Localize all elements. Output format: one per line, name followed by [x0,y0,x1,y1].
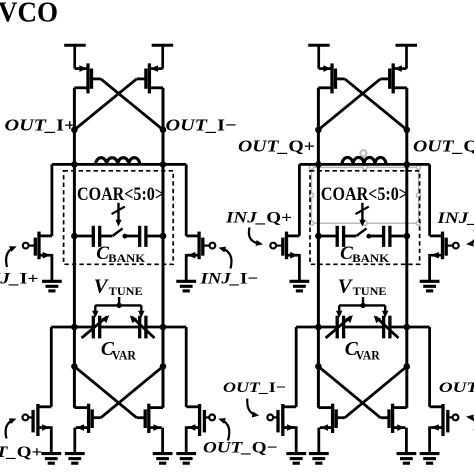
varactor CV2 (capacitor with arrow), block Q [374,315,399,338]
svg-text:OUT_I+: OUT_I+ [5,115,76,134]
node right output, block I [160,127,167,134]
svg-text:OUT_I+: OUT_I+ [439,380,474,396]
svg-text:INJ_Q−: INJ_Q− [436,210,474,227]
wire cross-coupling M1 gate to right output node, block I [101,79,163,130]
ground below right injection device, block Q [420,281,440,291]
capacitor C1 of bank, block Q [337,226,343,247]
wire cross-coupling M2 gate to left output node, block Q [318,79,380,130]
curved arrow INJ_Q- to bubble [466,230,474,247]
svg-text:BANK: BANK [108,253,145,265]
capacitor C1 of bank, block I [93,226,99,247]
node right output, block Q [404,127,411,134]
svg-text:BANK: BANK [352,253,389,265]
svg-text:TUNE: TUNE [353,284,387,298]
svg-text:VAR: VAR [356,349,381,363]
svg-text:OUT_I−: OUT_I− [166,115,237,134]
NMOS M3 (bottom-left cross-coupled, block Q) [318,404,344,454]
ground below M4, block Q [397,454,417,464]
V_TUNE feed tee with arrows, block Q [336,297,389,318]
curved arrow INJ_I- to bubble [218,247,231,269]
node tank-row right, block I [160,161,167,168]
wire cap to switch, block I [100,235,113,238]
label INJ_Q+ input [225,210,292,227]
wire cap row right, block Q [390,235,407,238]
node cap-row right, block Q [404,233,411,240]
ground below bottom-right coupling device, block I [176,454,196,464]
gray selection artifact [309,150,420,225]
wire cross-coupling bottom right node to M3 gate, block I [101,366,163,417]
switch control line with bus slash and arrow, block I [112,203,125,227]
wire varactor row left, block Q [296,326,337,329]
node tank-row left, block Q [315,161,322,168]
switch control line with bus slash and arrow, block Q [356,203,369,227]
wire tank row, block I [52,163,186,166]
NMOS injection device right (gate bubble), block Q [430,232,459,282]
svg-text:INJ_Q+: INJ_Q+ [225,210,292,227]
node varactor-row right, block I [160,324,167,331]
node bottom-right cross point, block I [160,363,167,370]
label C_BANK, block I [96,243,145,265]
svg-text:VAR: VAR [112,349,137,363]
node bottom-left cross point, block Q [315,363,322,370]
varactor CV2 (capacitor with arrow), block I [130,315,155,338]
ground below M3, block Q [309,454,329,464]
curved arrow OUT_Q- to bubble [218,418,229,441]
wire cross-coupling bottom left node to M4 gate, block I [74,366,136,417]
node varactor-row left, block Q [315,324,322,331]
svg-text:OUT_Q−: OUT_Q− [203,439,278,456]
wire varactor row drop right, block Q [428,327,431,407]
dashed box switched-capacitor bank, block I [64,171,174,264]
svg-text:INJ_I−: INJ_I− [199,271,258,288]
NMOS injection device left (gate bubble), block I [23,232,52,282]
node bottom-left cross point, block I [71,363,78,370]
wire switch to cap, block Q [369,235,384,238]
node tank-row right, block Q [404,161,411,168]
svg-text:VCO: VCO [0,0,58,29]
wire cross-coupling M1 gate to right output node, block Q [345,79,407,130]
supply rail symbol (VDD) right, block I [152,45,174,68]
NMOS M4 (bottom-right cross-coupled, block Q) [380,404,406,454]
wire right outer branch down to injection device, block Q [428,164,431,236]
wire varactor row drop left, block I [50,327,53,407]
svg-text:COAR<5:0>: COAR<5:0> [321,184,408,205]
switch S1 of cap bank, block I [112,228,127,238]
wire cap row left, block Q [318,235,337,238]
node bottom-right cross point, block Q [404,363,411,370]
label OUT_Q- node [413,136,474,155]
wire tank row, block Q [299,163,429,166]
inductor L1 tank coil, block I [96,158,140,165]
wire cross-coupling bottom left node to M4 gate, block Q [318,366,380,417]
wire varactor row middle, block I [100,326,140,329]
NMOS coupling device bottom-right (gate bubble), block Q [430,404,459,454]
label V_TUNE, block Q [338,275,387,298]
label INJ_I- input [199,271,258,288]
wire varactor row left, block I [51,326,93,329]
wire varactor row drop left, block Q [295,327,298,407]
switch S1 of cap bank, block Q [356,228,371,238]
PMOS M2 (top-right cross-coupled, block I) [137,63,163,93]
curved arrow INJ_Q+ to bubble [249,228,263,246]
wire varactor row right, block I [146,326,186,329]
ground below M3, block I [65,454,85,464]
NMOS M3 (bottom-left cross-coupled, block I) [74,404,100,454]
wire right rail, block I [162,88,165,408]
node tank-row left, block I [71,161,78,168]
PMOS M1 (top-left cross-coupled, block I) [74,63,100,93]
node varactor-row left, block I [71,324,78,331]
node varactor-row right, block Q [404,324,411,331]
svg-text:TUNE: TUNE [109,284,143,298]
svg-text:INJ_I+: INJ_I+ [0,271,39,288]
capacitor C2 of bank, block Q [384,226,390,247]
capacitor C2 of bank, block I [140,226,146,247]
node cap-row left, block I [71,233,78,240]
NMOS coupling device bottom-left (gate bubble), block Q [267,404,296,454]
label OUT_I+ node [5,115,76,134]
wire cap row right, block I [146,235,163,238]
dashed box switched-capacitor bank, block Q [310,171,420,264]
node cap-row right, block I [160,233,167,240]
svg-text:OUT_Q+: OUT_Q+ [238,136,315,155]
label OUT_Q+ coupling input [0,444,42,461]
wire left rail, block I [73,88,76,408]
wire left rail, block Q [317,88,320,408]
varactor CV1 (capacitor with arrow), block Q [326,315,353,338]
ground below left injection device, block Q [290,281,310,291]
label C_VAR, block I [101,339,137,363]
NMOS M4 (bottom-right cross-coupled, block I) [137,404,163,454]
svg-text:COAR<5:0>: COAR<5:0> [77,184,164,205]
label V_TUNE, block I [94,275,143,298]
svg-text:OUT_I−: OUT_I− [223,380,286,396]
ground below left injection device, block I [42,281,62,291]
label COAR<5:0>, block I [77,184,164,205]
title VCO [0,0,58,29]
node cap-row left, block Q [315,233,322,240]
curved arrow INJ_I+ to bubble [6,246,17,267]
ground below right injection device, block I [176,281,196,291]
label OUT_I+ coupling input [439,380,474,396]
ground below bottom-right coupling device, block Q [420,454,440,464]
label OUT_Q+ node [238,136,315,155]
label INJ_I+ input [0,271,39,288]
label OUT_I- coupling input [223,380,286,396]
NMOS coupling device bottom-left (gate bubble), block I [23,404,52,454]
node left output, block I [71,127,78,134]
label OUT_Q- coupling input [203,439,278,456]
NMOS injection device right (gate bubble), block I [186,232,215,282]
NMOS injection device left (gate bubble), block Q [270,232,299,282]
label COAR<5:0>, block Q [321,184,408,205]
wire cross-coupling bottom right node to M3 gate, block Q [345,366,407,417]
label OUT_I- node [166,115,237,134]
curved arrow OUT_I+ to bubble [466,415,474,431]
wire right outer branch down to injection device, block I [185,164,188,236]
wire cross-coupling M2 gate to left output node, block I [74,79,136,130]
PMOS M2 (top-right cross-coupled, block Q) [380,63,406,93]
label C_VAR, block Q [345,339,381,363]
wire left outer branch down to injection device, block Q [298,164,301,236]
wire left outer branch down to injection device, block I [51,164,54,236]
svg-text:V: V [94,275,110,297]
ground below bottom-left coupling device, block Q [286,454,306,464]
label C_BANK, block Q [340,243,389,265]
ground below M4, block I [153,454,173,464]
V_TUNE feed tee with arrows, block I [92,297,145,318]
supply rail symbol (VDD) left, block I [64,45,86,68]
wire switch to cap, block I [125,235,140,238]
svg-text:OUT_Q+: OUT_Q+ [0,444,42,461]
wire right rail, block Q [405,88,408,408]
varactor CV1 (capacitor with arrow), block I [82,315,110,338]
node left output, block Q [315,127,322,134]
curved arrow OUT_I- to bubble [247,399,259,418]
curved arrow OUT_Q+ to bubble [6,418,17,438]
wire varactor row middle, block Q [344,326,384,329]
PMOS M1 (top-left cross-coupled, block Q) [318,63,344,93]
supply rail symbol (VDD) right, block Q [396,45,418,68]
NMOS coupling device bottom-right (gate bubble), block I [186,404,215,454]
ground below bottom-left coupling device, block I [41,454,61,464]
wire varactor row drop right, block I [185,327,188,407]
wire cap row left, block I [74,235,93,238]
svg-text:V: V [338,275,354,297]
wire varactor row right, block Q [390,326,430,329]
wire cap to switch, block Q [344,235,357,238]
supply rail symbol (VDD) left, block Q [308,45,330,68]
svg-text:OUT_Q−: OUT_Q− [413,136,474,155]
inductor L1 tank coil, block Q [342,157,386,164]
label INJ_Q- input [436,210,474,227]
